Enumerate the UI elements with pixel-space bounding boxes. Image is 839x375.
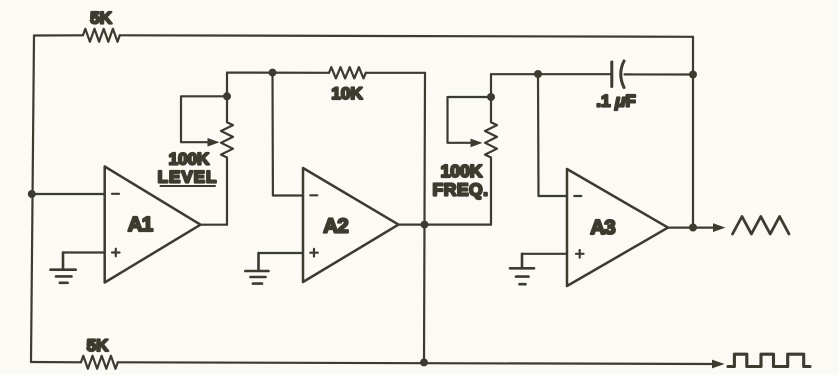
svg-text:A2: A2 — [323, 215, 348, 238]
resistor R3 10K — [329, 67, 366, 78]
pin plus A3 — [576, 250, 584, 258]
arrow square wave output — [712, 360, 725, 369]
pin minus A1 — [112, 193, 119, 195]
pin minus A2 — [310, 194, 317, 196]
ground G2 (A2 plus input) — [245, 253, 268, 284]
pin plus A2 — [310, 249, 318, 257]
svg-text:5K: 5K — [90, 9, 112, 28]
wire A3 output — [668, 227, 715, 229]
pin minus A3 — [574, 195, 581, 197]
ground G3 (A3 plus input) — [510, 254, 534, 284]
potentiometer R2 100K LEVEL (vertical body) — [221, 73, 233, 225]
capacitor C1 .1uF — [610, 62, 613, 87]
wire A3 inverting input vertical — [538, 74, 567, 196]
wire top middle (LEVEL top to A2 feedback) — [227, 71, 329, 73]
node bottom junction (A2 output feedback) — [420, 358, 428, 366]
svg-text:LEVEL: LEVEL — [158, 168, 218, 187]
underline LEVEL — [161, 185, 216, 187]
wire A1 non-inverting input — [63, 251, 105, 253]
wire A2 output vertical (feedback down to bottom wire) — [424, 73, 425, 363]
node A1 inverting input — [28, 190, 36, 198]
wire A1 inverting input — [32, 193, 105, 195]
wire A2 inverting input vertical — [273, 73, 304, 196]
svg-text:100K: 100K — [169, 150, 210, 169]
node pot FREQ top — [487, 93, 495, 101]
op-amp A3 — [567, 169, 668, 286]
svg-text:FREQ.: FREQ. — [433, 180, 489, 200]
svg-text:A3: A3 — [590, 216, 615, 239]
wire A1 output — [201, 224, 228, 226]
wire A2 non-inverting input — [259, 252, 304, 254]
resistor R1 5K (top) — [83, 29, 120, 42]
wire FREQ wiper loop — [448, 97, 492, 143]
node A3 inverting branch — [534, 70, 542, 78]
svg-text:.1 μF: .1 μF — [596, 92, 636, 111]
node capacitor right — [689, 71, 697, 79]
resistor R5 5K (bottom) — [81, 356, 118, 369]
svg-text:10K: 10K — [331, 84, 363, 103]
pin plus A1 — [112, 249, 120, 257]
arrow LEVEL wiper — [208, 138, 220, 147]
potentiometer R4 100K FREQ (vertical body) — [485, 74, 497, 224]
wire capacitor to A3 output vertical — [625, 73, 694, 75]
node pot LEVEL top — [223, 92, 231, 100]
wire bottom horizontal left lead — [31, 361, 81, 363]
wire A2 output — [399, 224, 492, 226]
node A2 output junction — [421, 221, 429, 229]
op-amp A2 — [303, 168, 399, 282]
wire right vertical (top wire down to A3 output) — [692, 37, 694, 228]
wire 10K to A2 output vertical — [366, 72, 425, 74]
arrow FREQ wiper — [471, 139, 483, 148]
wire A3 non-inverting input — [522, 253, 567, 255]
ground G1 (A1 plus input) — [51, 253, 76, 283]
wire bottom horizontal to arrow — [118, 362, 712, 364]
svg-text:A1: A1 — [128, 213, 153, 236]
node A2 inverting branch — [269, 69, 277, 77]
symbol square wave output — [728, 354, 810, 366]
node A3 output junction — [689, 224, 697, 232]
wire top horizontal right of 5K — [120, 35, 693, 37]
wire FREQ top to capacitor — [491, 73, 611, 75]
svg-text:100K: 100K — [441, 161, 483, 181]
wire top horizontal (A1 minus node to A3 output, left lead) — [34, 34, 83, 36]
wire LEVEL wiper loop — [181, 96, 227, 142]
symbol triangle wave output — [733, 217, 790, 235]
arrow A3 output — [713, 223, 726, 232]
wire left vertical (top wire down to bottom wire) — [31, 36, 34, 363]
svg-text:5K: 5K — [87, 336, 109, 355]
op-amp A1 — [105, 167, 201, 283]
